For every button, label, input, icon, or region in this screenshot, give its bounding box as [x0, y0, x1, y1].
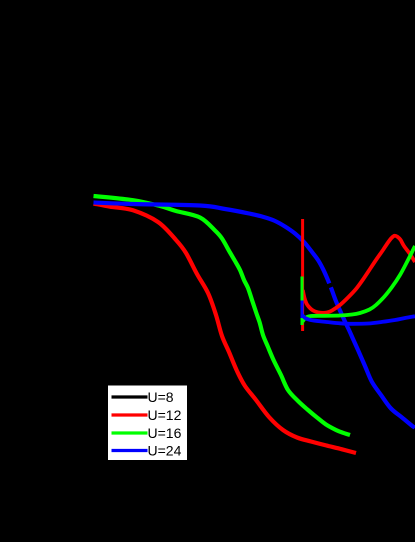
inset green curve: [303, 246, 415, 322]
svg-text:U=16: U=16: [148, 425, 182, 441]
svg-text:U=8: U=8: [148, 389, 174, 405]
svg-text:U=24: U=24: [148, 443, 182, 459]
inset blue curve: [303, 316, 415, 324]
legend box: [108, 386, 187, 461]
curve U=24 blue main: [94, 203, 415, 428]
svg-text:U=12: U=12: [148, 407, 182, 423]
legend line U=24: [112, 449, 148, 452]
inset blue vertical jump: [301, 301, 304, 319]
inset red vertical jump: [301, 219, 304, 331]
curve U=12 red main: [94, 204, 357, 454]
inset green vertical jump: [301, 277, 304, 326]
dash gap crossing blue curve: [329, 283, 331, 287]
legend line U=16: [112, 431, 148, 434]
inset red curve: [303, 236, 415, 313]
curve U=16 green main: [94, 196, 351, 435]
legend line U=8: [112, 395, 148, 398]
legend line U=12: [112, 413, 148, 416]
